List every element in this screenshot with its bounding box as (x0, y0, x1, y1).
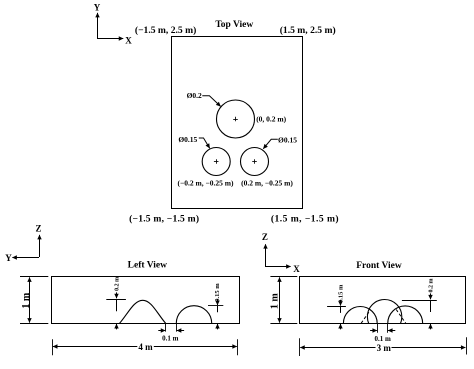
svg-text:0.2 m: 0.2 m (114, 277, 120, 291)
svg-text:Ø0.15: Ø0.15 (278, 136, 297, 145)
svg-text:0.2 m: 0.2 m (429, 279, 435, 293)
svg-text:0.15 m: 0.15 m (337, 284, 344, 303)
svg-text:1 m: 1 m (21, 292, 32, 309)
svg-text:X: X (125, 35, 132, 45)
svg-text:0.1 m: 0.1 m (375, 335, 392, 343)
svg-text:(0.2 m, −0.25 m): (0.2 m, −0.25 m) (241, 179, 293, 188)
svg-text:Ø0.15: Ø0.15 (178, 135, 197, 144)
svg-text:(1.5 m, −1.5 m): (1.5 m, −1.5 m) (271, 214, 339, 225)
svg-text:Top View: Top View (215, 20, 253, 30)
svg-text:Ø0.2: Ø0.2 (187, 91, 202, 100)
svg-text:X: X (293, 264, 300, 274)
svg-text:Z: Z (35, 224, 41, 234)
svg-text:Z: Z (262, 232, 268, 242)
svg-text:0.1 m: 0.1 m (162, 335, 179, 343)
svg-text:(−1.5 m, −1.5 m): (−1.5 m, −1.5 m) (129, 214, 199, 225)
svg-text:(0, 0.2 m): (0, 0.2 m) (256, 114, 286, 123)
svg-text:Y: Y (5, 253, 12, 263)
svg-text:0.15 m: 0.15 m (214, 283, 221, 302)
svg-text:(1.5 m, 2.5 m): (1.5 m, 2.5 m) (280, 25, 336, 36)
svg-text:1 m: 1 m (270, 293, 281, 310)
svg-text:(−0.2 m, −0.25 m): (−0.2 m, −0.25 m) (177, 179, 234, 188)
svg-text:Front View: Front View (356, 261, 402, 271)
svg-text:Left View: Left View (128, 261, 167, 271)
svg-text:3 m: 3 m (377, 343, 392, 353)
svg-text:(−1.5 m, 2.5 m): (−1.5 m, 2.5 m) (135, 25, 196, 36)
svg-text:Y: Y (94, 2, 101, 12)
svg-text:4 m: 4 m (138, 342, 153, 352)
